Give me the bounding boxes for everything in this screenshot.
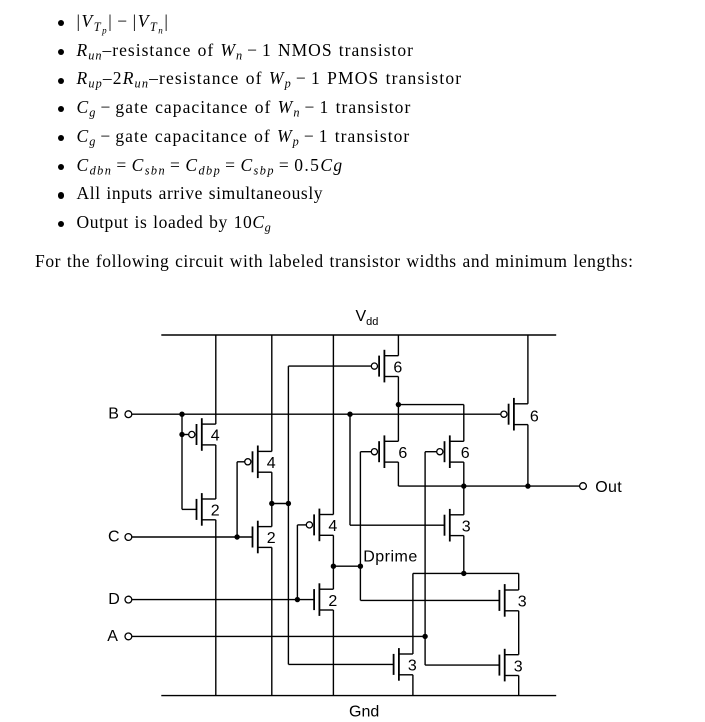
svg-text:2: 2 [267,530,276,547]
wire Vdd to M1 source [215,335,217,424]
junction n3 node [461,571,466,576]
svg-text:Dprime: Dprime [363,548,418,565]
junction n2 node [396,402,401,407]
terminal A [125,633,132,640]
wire D gate drop [296,525,298,600]
PMOS transistor M1 (W=4) [189,418,220,451]
wire M3 gate stub [237,461,245,463]
svg-text:2: 2 [211,503,220,520]
wire A input line [132,635,426,637]
bullet item 1 [0,13,1,31]
svg-text:3: 3 [518,594,527,611]
PMOS transistor M7 (W=6) [371,350,402,383]
svg-text:Gnd: Gnd [349,704,379,721]
bullet item 6 [0,157,1,175]
wire M14 source to Gnd [412,675,414,696]
svg-text:3: 3 [408,658,417,675]
NMOS transistor M14 (W=3) [394,648,417,681]
svg-text:4: 4 [328,518,337,535]
wire M6 source to Gnd [332,610,334,696]
bullet item 7 [0,185,1,203]
NMOS transistor M12 (W=3) [499,584,526,617]
wire M2 gate stub [182,508,197,510]
terminal D [125,596,132,603]
svg-text:6: 6 [398,445,407,462]
junction Dprime on vertical [358,564,363,569]
terminal B [125,411,132,418]
wire M5 drain to M6 drain (Dprime) [332,535,334,589]
junction Dprime on D column [331,564,336,569]
NMOS transistor M6 (W=2) [314,583,337,616]
svg-text:4: 4 [267,455,276,472]
junction Out node right [525,483,530,488]
wire B gate drop [181,414,183,509]
wire Gnd rail [161,695,556,697]
wire C input line [132,536,253,538]
wire M11 source down [463,536,465,574]
svg-text:Out: Out [595,479,622,496]
wire M1 gate stub [182,434,189,436]
paragraph: For the following circuit [35,253,634,271]
wire Dprime vertical [359,452,361,601]
wire A to M13 gate [425,664,499,666]
PMOS transistor M9 (W=6) [437,435,470,468]
wire n2 to M9 source [463,405,465,442]
junction M1 gate tap [179,432,184,437]
wire M9 gate stub [425,451,437,453]
wire n3 to M12 drain [518,573,520,590]
NMOS transistor M11 (W=3) [445,509,471,542]
PMOS transistor M10 (W=6) [501,398,539,431]
wire n1 long vertical [287,366,289,664]
bullet item 4 [0,99,1,117]
wire Vdd to M5 source [332,335,334,515]
wire M8 drain to Out [397,462,399,486]
junction n1 on long vertical [286,501,291,506]
junction D line tap [295,597,300,602]
wire M7 drain vertical [397,377,399,442]
junction Out node left [461,483,466,488]
svg-text:A: A [107,628,118,645]
wire n1 branch [272,503,289,505]
svg-text:4: 4 [211,428,220,445]
terminal C [125,534,132,541]
svg-text:6: 6 [461,445,470,462]
wire Dprime branch [333,565,360,567]
wire M7 gate wire [288,365,371,367]
wire B input line [132,413,501,415]
wire A vertical [424,452,426,665]
PMOS transistor M8 (W=6) [371,435,407,468]
PMOS transistor M3 (W=4) [245,446,276,479]
svg-text:Vdd: Vdd [356,308,379,328]
wire M3 drain to M4 drain [271,472,273,526]
bullet item 2 [0,42,1,60]
wire Dprime to M12 gate [360,599,499,601]
bullet item 8 [0,214,1,232]
wire Vdd rail [161,334,556,336]
wire n2 branch [398,404,463,406]
wire M5 gate stub [297,524,306,526]
svg-text:3: 3 [514,658,523,675]
wire B to M11 gate [350,524,445,526]
svg-text:2: 2 [328,593,337,610]
bullet item 5 [0,128,1,146]
PMOS transistor M5 (W=4) [306,509,337,542]
wire Out to M11 drain [463,486,465,515]
junction B line tap right [347,412,352,417]
wire M2 source to Gnd [215,520,217,696]
wire n3 horizontal [413,572,519,574]
wire D input line [132,599,315,601]
NMOS transistor M2 (W=2) [197,493,220,526]
wire Vdd to M3 source [271,335,273,451]
svg-text:B: B [108,406,119,423]
wire C gate drop [236,462,238,537]
wire M12 source to M13 drain [518,611,520,655]
wire M9 drain to Out [463,462,465,486]
svg-text:D: D [108,591,120,608]
wire Out line [398,485,579,487]
wire M1 drain to M2 drain [215,445,217,499]
wire Vdd to M10 source [527,335,529,404]
junction n1 on C column [269,501,274,506]
wire M13 source to Gnd [518,676,520,696]
wire M10 drain to Out [527,425,529,487]
bullet item 3 [0,70,1,88]
wire M4 source to Gnd [271,547,273,695]
wire n3 to M14 drain [412,573,414,654]
NMOS transistor M13 (W=3) [499,649,522,682]
junction A line end [422,634,427,639]
NMOS transistor M4 (W=2) [253,521,276,554]
svg-text:6: 6 [530,408,539,425]
wire M14 gate wire [288,663,393,665]
wire B gate drop right [349,414,351,525]
terminal Out [580,483,587,490]
svg-text:C: C [108,529,120,546]
svg-text:3: 3 [462,518,471,535]
wire Vdd to M7 source [397,335,399,356]
svg-text:6: 6 [393,359,402,376]
wire M8 gate stub [360,451,371,453]
junction C line tap [234,534,239,539]
junction B line tap [179,412,184,417]
